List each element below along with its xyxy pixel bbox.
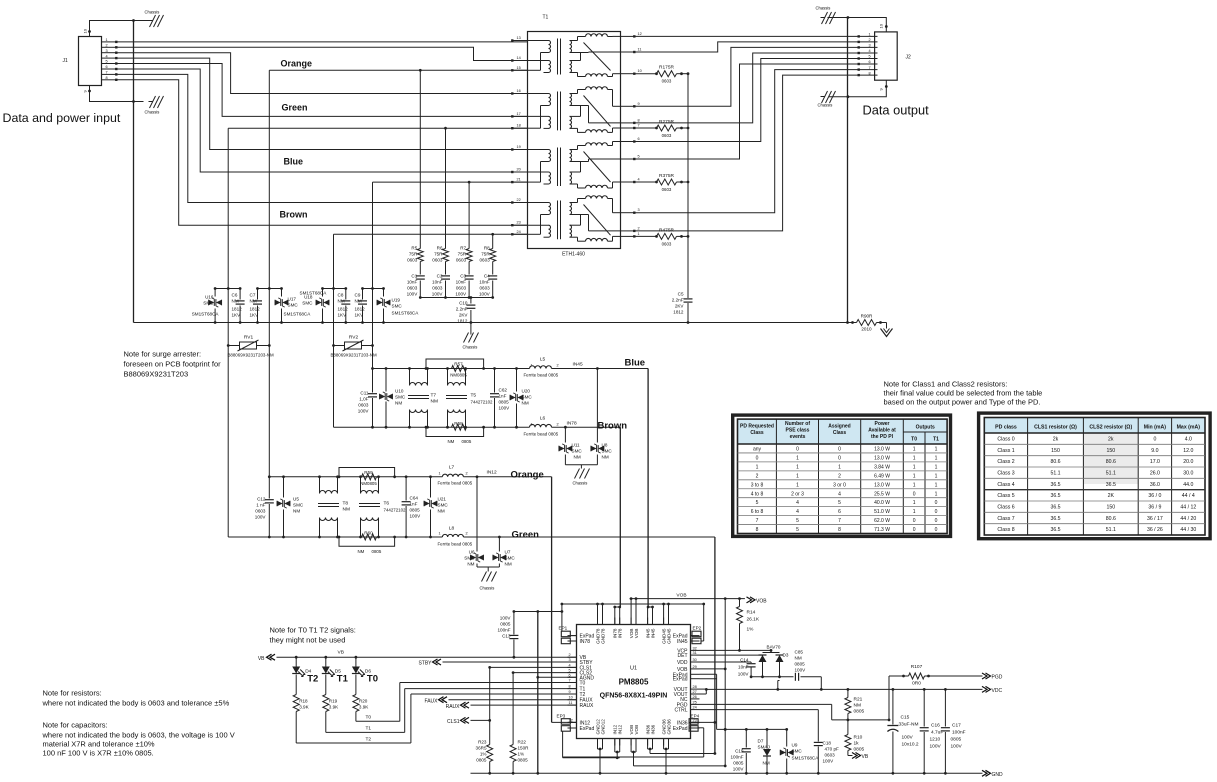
svg-text:0: 0	[913, 491, 916, 497]
port VOB	[747, 597, 756, 603]
svg-text:1: 1	[935, 491, 938, 497]
svg-text:Available at: Available at	[868, 428, 896, 434]
svg-text:7: 7	[638, 124, 640, 128]
svg-text:PD class: PD class	[995, 425, 1017, 431]
Green trunk down	[714, 537, 716, 754]
svg-text:100V: 100V	[738, 672, 750, 677]
svg-text:5: 5	[838, 500, 841, 506]
svg-text:Data and power input: Data and power input	[3, 111, 121, 125]
svg-text:4: 4	[106, 54, 108, 58]
capacitor C13 100nF	[513, 640, 515, 658]
svg-text:1: 1	[439, 532, 441, 536]
T1 cell 3 (pair C windings)	[528, 149, 549, 151]
svg-text:ExPad: ExPad	[673, 677, 688, 683]
svg-text:ExPad: ExPad	[580, 726, 595, 732]
svg-text:1,0F: 1,0F	[359, 397, 368, 402]
chassis rail	[134, 322, 857, 324]
svg-text:0805: 0805	[410, 508, 421, 513]
svg-text:GND45: GND45	[666, 628, 671, 644]
svg-text:2k: 2k	[1108, 437, 1114, 443]
svg-text:VOB: VOB	[634, 629, 639, 639]
T1 cell 1 (pair A windings)	[528, 40, 549, 42]
svg-text:0: 0	[838, 447, 841, 453]
svg-text:R175R: R175R	[659, 65, 674, 71]
svg-text:8: 8	[869, 71, 871, 75]
svg-text:150: 150	[1106, 505, 1115, 511]
svg-text:51.0 W: 51.0 W	[874, 509, 890, 515]
svg-text:100 nF 100 V is X7R ±10% 0805.: 100 nF 100 V is X7R ±10% 0805.	[43, 749, 154, 758]
bar GND top	[562, 603, 704, 605]
svg-text:R375R: R375R	[659, 173, 674, 179]
svg-text:13.0 W: 13.0 W	[874, 447, 890, 453]
svg-text:U9: U9	[792, 743, 798, 748]
svg-text:NM: NM	[448, 439, 455, 444]
capacitor C6 NM 1812 1KV	[239, 289, 241, 300]
svg-text:0603: 0603	[662, 241, 672, 246]
svg-text:150: 150	[1051, 448, 1060, 454]
svg-text:1812: 1812	[673, 310, 684, 315]
svg-text:T0: T0	[366, 715, 372, 721]
svg-text:100nF: 100nF	[730, 755, 743, 760]
port VDC	[982, 686, 991, 692]
svg-text:19: 19	[517, 145, 521, 149]
svg-text:100V: 100V	[479, 292, 491, 297]
svg-text:Class: Class	[750, 430, 764, 436]
svg-text:8: 8	[569, 685, 571, 689]
wire J1.2-T1.14	[117, 47, 528, 60]
svg-text:3: 3	[869, 44, 871, 48]
capacitor C17 100nF	[944, 689, 946, 726]
svg-text:CTRL: CTRL	[674, 708, 687, 714]
svg-text:2: 2	[106, 44, 108, 48]
svg-text:24: 24	[693, 706, 697, 710]
svg-text:C1: C1	[411, 274, 417, 279]
svg-text:2: 2	[869, 38, 871, 42]
wire CLS2	[513, 672, 576, 674]
chassis right lower	[821, 96, 825, 98]
lower block top rail	[269, 476, 442, 478]
svg-text:T0: T0	[911, 437, 917, 443]
svg-text:36 / 9: 36 / 9	[1148, 505, 1161, 511]
svg-text:5: 5	[638, 155, 640, 159]
svg-text:80.6: 80.6	[1050, 459, 1060, 465]
svg-text:RAUX: RAUX	[580, 703, 595, 709]
svg-text:Chassis: Chassis	[480, 586, 495, 591]
wire J1 pin9	[90, 86, 134, 102]
resistor R23 36R5	[487, 745, 493, 762]
wire AGND	[538, 676, 577, 678]
svg-text:1: 1	[935, 447, 938, 453]
svg-text:29: 29	[693, 665, 697, 669]
VOB bottom drop	[631, 751, 636, 753]
svg-text:1: 1	[869, 33, 871, 37]
resistor R22 150R	[510, 745, 516, 762]
trunk pin15 (to lower block)	[268, 70, 270, 477]
T1 cell 2 (pair B windings)	[528, 93, 549, 95]
svg-text:36.5: 36.5	[1050, 505, 1060, 511]
svg-text:IN45: IN45	[677, 639, 688, 645]
VDC line	[706, 688, 982, 690]
wire T1.8-J2.4	[636, 53, 859, 123]
svg-text:SM1ST68CA: SM1ST68CA	[792, 756, 820, 761]
VOB line	[630, 598, 745, 600]
resistor R90R 2010	[857, 320, 877, 326]
svg-text:DET: DET	[678, 653, 688, 659]
svg-text:Note for T0 T1 T2 signals:: Note for T0 T1 T2 signals:	[270, 626, 356, 635]
svg-text:VB: VB	[338, 650, 344, 656]
svg-text:18: 18	[517, 124, 521, 128]
svg-text:10x10.2: 10x10.2	[902, 742, 919, 748]
svg-text:150R: 150R	[518, 746, 530, 751]
svg-text:NM: NM	[395, 401, 402, 406]
wire T1.3-J2.7	[636, 70, 859, 213]
termination bus vertical	[687, 74, 689, 297]
svg-text:2KV: 2KV	[459, 313, 469, 318]
svg-text:75R: 75R	[458, 252, 467, 257]
svg-text:44 / 20: 44 / 20	[1180, 516, 1196, 522]
svg-text:1210: 1210	[930, 737, 941, 743]
ferrite bead L6	[530, 424, 552, 427]
svg-text:1: 1	[106, 38, 108, 42]
svg-text:3: 3	[638, 208, 640, 212]
svg-text:C6: C6	[232, 293, 238, 298]
svg-text:Min (mA): Min (mA)	[1144, 425, 1166, 431]
svg-text:SM1ST68CA: SM1ST68CA	[192, 312, 220, 317]
svg-text:44.0: 44.0	[1183, 482, 1193, 488]
diodes D2/D3 BAV70	[770, 650, 772, 652]
svg-text:R58: R58	[454, 421, 463, 426]
svg-text:31: 31	[693, 651, 697, 655]
svg-text:VB: VB	[258, 656, 265, 662]
svg-text:R475R: R475R	[659, 227, 674, 233]
TVS U6 on Orange	[476, 475, 479, 478]
resistor R2 75R	[636, 127, 657, 129]
svg-text:Chassis: Chassis	[463, 345, 478, 350]
svg-text:B88069X9231T203-NM: B88069X9231T203-NM	[228, 353, 274, 358]
svg-text:150: 150	[1106, 448, 1115, 454]
svg-text:0805: 0805	[854, 709, 865, 715]
svg-text:6 to 8: 6 to 8	[751, 509, 764, 515]
svg-text:SMC: SMC	[288, 303, 299, 308]
svg-text:17.0: 17.0	[1150, 459, 1160, 465]
capacitor C15 33uF	[892, 689, 894, 724]
resistor R59 NM0805	[362, 474, 377, 480]
svg-text:1812: 1812	[338, 307, 349, 312]
svg-text:IN78: IN78	[618, 628, 623, 638]
svg-text:NM: NM	[522, 401, 529, 406]
bar C7-U17	[258, 288, 282, 290]
svg-text:1 nF: 1 nF	[256, 503, 265, 508]
wire J1.3-T1.16	[117, 53, 528, 94]
wire VCP	[700, 649, 740, 651]
svg-text:2010: 2010	[861, 327, 872, 332]
svg-text:3 to 8: 3 to 8	[751, 482, 764, 488]
svg-text:0603: 0603	[479, 258, 490, 263]
svg-text:6: 6	[638, 137, 640, 141]
svg-text:any: any	[753, 447, 762, 453]
svg-text:R19: R19	[329, 699, 338, 704]
svg-text:IN12: IN12	[487, 470, 497, 476]
svg-text:0603: 0603	[432, 258, 443, 263]
svg-text:R14: R14	[747, 610, 756, 616]
capacitor C14 10nF 100V	[747, 663, 756, 665]
svg-text:R59: R59	[364, 470, 373, 475]
svg-text:Class 3: Class 3	[997, 471, 1014, 477]
table PD class assignment (outer frame)	[733, 415, 951, 536]
svg-text:1%: 1%	[747, 627, 755, 633]
J2 pins 1-8	[859, 35, 878, 37]
ferrite bead L8	[442, 534, 463, 537]
svg-text:NM: NM	[505, 562, 512, 567]
TVS U7 on Green	[498, 536, 501, 539]
svg-text:Class 2: Class 2	[997, 459, 1014, 465]
svg-text:C5: C5	[678, 292, 684, 297]
svg-text:U18: U18	[304, 295, 313, 300]
choke T6 744272102	[360, 477, 362, 494]
svg-text:where not indicated the body i: where not indicated the body is 0603, th…	[42, 731, 235, 740]
C1-C4 bottom rail	[420, 297, 492, 299]
svg-text:their final value could be sel: their final value could be selected from…	[884, 389, 1043, 398]
svg-text:FAUX: FAUX	[424, 699, 438, 705]
svg-text:SMC: SMC	[392, 304, 403, 309]
svg-text:RV2: RV2	[349, 335, 359, 341]
svg-text:1: 1	[796, 482, 799, 488]
svg-text:100V: 100V	[432, 292, 444, 297]
svg-text:9.0: 9.0	[1151, 448, 1158, 454]
svg-text:0: 0	[935, 500, 938, 506]
svg-text:T0: T0	[367, 674, 378, 685]
chassis under U6/U7	[477, 566, 499, 568]
svg-text:C3: C3	[460, 274, 466, 279]
lower block bottom rail	[228, 536, 442, 538]
svg-text:PM8805: PM8805	[619, 678, 649, 687]
svg-text:2: 2	[838, 473, 841, 479]
svg-text:0603: 0603	[662, 133, 672, 138]
T1 left pins 13-24	[513, 40, 528, 42]
svg-text:NM: NM	[763, 761, 770, 766]
transformer T1 box	[528, 32, 621, 249]
svg-text:13.0 W: 13.0 W	[874, 482, 890, 488]
svg-text:QFN56-8X8X1-49PIN: QFN56-8X8X1-49PIN	[600, 693, 668, 700]
svg-text:C12: C12	[257, 497, 266, 502]
svg-text:Note for resistors:: Note for resistors:	[43, 689, 102, 698]
TVS U5 SMC NM	[283, 477, 285, 498]
svg-text:Number of: Number of	[785, 421, 810, 427]
svg-text:SM1ST68CA: SM1ST68CA	[284, 312, 312, 317]
TVS U19 SM1ST68CA	[383, 289, 385, 297]
pad EP6	[689, 719, 698, 725]
svg-text:NM0805: NM0805	[360, 481, 377, 486]
svg-text:17: 17	[517, 112, 521, 116]
svg-text:T6: T6	[384, 501, 390, 507]
svg-text:16: 16	[517, 89, 521, 93]
svg-text:10nF: 10nF	[479, 280, 490, 285]
svg-text:C2: C2	[437, 274, 443, 279]
varistor RV2	[332, 344, 335, 347]
svg-text:8: 8	[106, 76, 108, 80]
svg-text:0: 0	[796, 447, 799, 453]
svg-text:0603: 0603	[407, 286, 418, 291]
svg-text:RV1: RV1	[244, 335, 254, 341]
capacitor C9 NM 1812 1KV	[362, 289, 364, 300]
wire CTRL to C18	[700, 709, 819, 711]
svg-text:STBY: STBY	[418, 661, 432, 667]
svg-text:51.1: 51.1	[1050, 471, 1060, 477]
svg-text:100V: 100V	[499, 406, 511, 411]
svg-text:1: 1	[913, 500, 916, 506]
chassis trunk left	[133, 21, 135, 323]
svg-text:0805: 0805	[372, 549, 382, 554]
capacitor C5 2.2nF	[687, 297, 689, 299]
resistor R58 NM 0805	[452, 424, 467, 430]
svg-text:0603: 0603	[479, 286, 490, 291]
svg-text:4: 4	[869, 49, 871, 53]
svg-text:75R: 75R	[481, 252, 490, 257]
wire Orange to IN12 pin	[552, 721, 577, 723]
svg-text:Note for capacitors:: Note for capacitors:	[43, 721, 108, 730]
svg-text:27: 27	[693, 690, 697, 694]
svg-text:22: 22	[517, 198, 521, 202]
resistor R10 1k 0805	[847, 720, 849, 735]
svg-text:NM: NM	[338, 299, 345, 304]
wire tap pin21 row	[373, 181, 528, 183]
svg-text:4: 4	[796, 500, 799, 506]
svg-text:NM: NM	[232, 299, 239, 304]
node line PGD/R21/R10	[832, 719, 889, 721]
svg-text:R275R: R275R	[659, 119, 674, 125]
svg-text:PSE class: PSE class	[786, 428, 810, 434]
svg-text:1: 1	[531, 423, 533, 427]
svg-text:1: 1	[531, 364, 533, 368]
svg-text:30.0: 30.0	[1183, 471, 1193, 477]
svg-text:1: 1	[638, 232, 640, 236]
chassis left lower	[134, 101, 144, 103]
svg-text:0805: 0805	[951, 737, 962, 743]
svg-text:0603: 0603	[456, 286, 467, 291]
svg-text:7: 7	[838, 518, 841, 524]
svg-text:6: 6	[106, 65, 108, 69]
svg-text:C11: C11	[360, 391, 369, 396]
svg-text:11: 11	[569, 701, 573, 705]
svg-text:25: 25	[693, 700, 697, 704]
resistor R5 75R + capacitor C1 10nF	[419, 70, 421, 248]
svg-text:1: 1	[439, 472, 441, 476]
svg-text:1KV: 1KV	[355, 313, 365, 318]
bar EP3 right	[700, 673, 717, 675]
svg-text:744272102: 744272102	[384, 508, 407, 513]
capacitor C64 1nF	[405, 477, 407, 501]
svg-text:SMC: SMC	[203, 301, 214, 306]
wire IN36 right pin	[691, 721, 715, 723]
svg-text:10nF: 10nF	[456, 280, 467, 285]
svg-text:SMC: SMC	[522, 395, 533, 400]
resistor R8 75R + capacitor C4 10nF	[492, 234, 494, 248]
port GND	[982, 770, 991, 776]
capacitor C19 100nF	[745, 729, 747, 747]
bar U18-C8	[323, 288, 346, 290]
svg-text:13.0 W: 13.0 W	[874, 455, 890, 461]
svg-text:C16: C16	[931, 723, 940, 729]
svg-text:D7: D7	[758, 739, 764, 744]
svg-text:1: 1	[796, 473, 799, 479]
svg-text:NM: NM	[358, 549, 365, 554]
wire J1 pin10 to chassis trunk	[90, 21, 134, 37]
svg-text:4: 4	[638, 178, 640, 182]
svg-text:C19: C19	[735, 749, 744, 754]
TVS U17 SM1ST68CA	[281, 289, 283, 297]
svg-text:3.9K: 3.9K	[329, 705, 339, 710]
svg-text:5: 5	[796, 527, 799, 533]
svg-text:8: 8	[638, 118, 640, 122]
svg-text:1: 1	[756, 464, 759, 470]
AGND trunk	[537, 612, 539, 774]
svg-text:2: 2	[466, 472, 468, 476]
VOB bottom bus	[717, 728, 787, 730]
wire VOUT join	[700, 688, 707, 690]
svg-text:44 / 4: 44 / 4	[1182, 493, 1195, 499]
svg-text:T1: T1	[337, 674, 349, 685]
svg-text:Class 7: Class 7	[997, 516, 1014, 522]
svg-text:B88069X9231T203-NM: B88069X9231T203-NM	[331, 353, 377, 358]
svg-text:100V: 100V	[500, 616, 512, 621]
wire J1.5-T1.17	[117, 64, 528, 117]
svg-text:3: 3	[106, 49, 108, 53]
wire J1.1-T1.13	[117, 41, 528, 43]
svg-text:U10: U10	[395, 389, 404, 394]
svg-text:SMC: SMC	[438, 503, 449, 508]
svg-text:U20: U20	[522, 389, 531, 394]
svg-text:26.1K: 26.1K	[747, 617, 760, 623]
svg-text:2: 2	[466, 532, 468, 536]
svg-text:1nF: 1nF	[410, 502, 418, 507]
choke T8 NM	[319, 477, 321, 494]
bar IN36 bottom	[650, 753, 715, 755]
svg-text:0603: 0603	[432, 286, 443, 291]
svg-text:80.6: 80.6	[1106, 459, 1116, 465]
svg-text:C4: C4	[484, 274, 490, 279]
svg-text:6: 6	[838, 509, 841, 515]
svg-text:1: 1	[913, 473, 916, 479]
svg-text:3 or 0: 3 or 0	[833, 482, 846, 488]
svg-text:1: 1	[796, 464, 799, 470]
svg-text:RAUX: RAUX	[446, 704, 461, 710]
svg-text:0: 0	[913, 527, 916, 533]
svg-text:5: 5	[106, 60, 108, 64]
svg-text:Chassis: Chassis	[818, 103, 833, 108]
Orange trunk down	[551, 477, 553, 723]
svg-text:0603: 0603	[407, 258, 418, 263]
svg-text:EP4: EP4	[691, 714, 700, 719]
table CLS resistors (grid+text)	[984, 418, 1205, 434]
svg-text:36.5: 36.5	[1050, 516, 1060, 522]
svg-text:C15: C15	[901, 715, 910, 721]
svg-text:0603: 0603	[662, 187, 672, 192]
svg-text:Max (mA): Max (mA)	[1177, 425, 1201, 431]
svg-text:L8: L8	[449, 526, 455, 532]
pad EP2	[692, 631, 701, 637]
svg-text:EP3: EP3	[557, 714, 566, 719]
svg-text:2 or 3: 2 or 3	[791, 491, 804, 497]
chassis top-right	[821, 17, 825, 19]
svg-text:R10: R10	[854, 735, 863, 741]
resistor R21 NM 0805	[847, 689, 849, 697]
svg-text:Green: Green	[512, 530, 540, 541]
svg-text:100V: 100V	[823, 759, 835, 764]
svg-text:GND78: GND78	[600, 628, 605, 644]
svg-text:Data output: Data output	[863, 103, 930, 118]
svg-text:1: 1	[913, 447, 916, 453]
svg-text:T7: T7	[431, 393, 437, 399]
